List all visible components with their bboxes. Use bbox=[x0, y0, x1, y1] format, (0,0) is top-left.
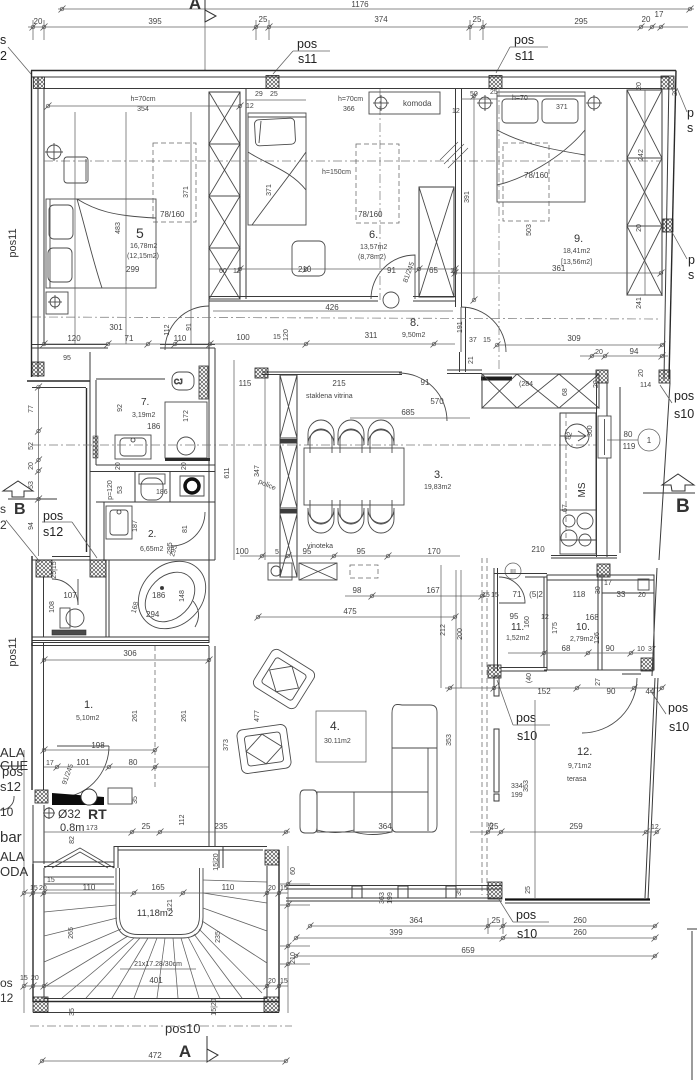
toilet bath lower bbox=[60, 608, 84, 628]
svg-text:78/160: 78/160 bbox=[358, 210, 383, 219]
svg-text:37: 37 bbox=[648, 646, 656, 653]
corridor jog wall x462 bbox=[460, 307, 466, 372]
svg-text:15: 15 bbox=[30, 885, 38, 892]
left wall lower run2 bbox=[32, 643, 215, 864]
svg-text:90: 90 bbox=[607, 687, 616, 696]
stairs labels bbox=[68, 899, 222, 969]
svg-text:12: 12 bbox=[452, 108, 460, 115]
bottom dim row 659 bbox=[293, 946, 659, 960]
sofa L bbox=[300, 705, 437, 835]
rooms 10/11 bottom wall + piers bbox=[488, 658, 654, 678]
svg-text:(284: (284 bbox=[519, 381, 533, 388]
svg-text:komoda: komoda bbox=[403, 99, 432, 108]
axis dashed room 9 bbox=[498, 88, 500, 372]
svg-text:10: 10 bbox=[0, 805, 14, 819]
dims rooms 10/11 bbox=[440, 545, 666, 696]
stairs canopy bbox=[44, 848, 114, 884]
svg-text:p: p bbox=[687, 106, 694, 120]
svg-text:371: 371 bbox=[556, 104, 568, 111]
svg-text:152: 152 bbox=[537, 687, 551, 696]
svg-text:35: 35 bbox=[132, 796, 139, 804]
svg-text:terasa: terasa bbox=[567, 776, 587, 783]
closet dashed room 6 bbox=[356, 144, 399, 223]
svg-text:3.: 3. bbox=[434, 469, 443, 481]
svg-text:15: 15 bbox=[491, 592, 499, 599]
svg-text:MS: MS bbox=[577, 482, 588, 497]
piers stairs bbox=[265, 850, 279, 865]
stair treads left fan bbox=[44, 890, 148, 998]
svg-text:15|20: 15|20 bbox=[213, 853, 220, 870]
room 12 terasa label bbox=[567, 746, 592, 783]
pier top-left corner bbox=[34, 77, 45, 89]
svg-text:1,52m2: 1,52m2 bbox=[506, 635, 529, 642]
room 9 labels bbox=[452, 171, 665, 277]
svg-text:475: 475 bbox=[343, 607, 357, 616]
svg-text:306: 306 bbox=[123, 649, 137, 658]
stove kitchen bbox=[560, 510, 596, 554]
svg-text:347: 347 bbox=[254, 465, 261, 477]
terrace left edge line bbox=[534, 700, 536, 898]
pos10 dash line bbox=[30, 1021, 292, 1036]
svg-text:25|15: 25|15 bbox=[51, 561, 58, 578]
svg-text:17: 17 bbox=[655, 10, 664, 19]
svg-text:126: 126 bbox=[594, 632, 601, 644]
svg-text:pos: pos bbox=[297, 37, 317, 51]
wall bath7 top (room5 bottom) bbox=[32, 345, 215, 349]
label pos s12 left bbox=[6, 509, 97, 562]
svg-text:399: 399 bbox=[389, 928, 403, 937]
RT labels bbox=[43, 806, 107, 834]
chairs top row bbox=[308, 420, 394, 453]
svg-text:160: 160 bbox=[524, 616, 531, 628]
svg-text:10.: 10. bbox=[576, 622, 590, 633]
svg-text:259: 259 bbox=[569, 822, 583, 831]
svg-text:503: 503 bbox=[526, 224, 533, 236]
wall above dining w. lintel bbox=[447, 370, 512, 381]
svg-text:RT: RT bbox=[88, 806, 107, 822]
entry band: pier bbox=[35, 790, 48, 803]
outer wall left bbox=[32, 71, 45, 378]
bed room 5 bbox=[46, 199, 156, 288]
svg-text:20: 20 bbox=[595, 349, 603, 356]
svg-text:s10: s10 bbox=[674, 407, 694, 421]
svg-text:(8,78m2): (8,78m2) bbox=[358, 254, 386, 261]
svg-text:198: 198 bbox=[91, 741, 105, 750]
dim row 1176 top bbox=[58, 0, 694, 13]
dim row 25 235 bbox=[44, 814, 290, 844]
vertical axis dashed x380 bbox=[379, 89, 381, 300]
dim 50 25 room 9 bbox=[461, 89, 498, 111]
svg-text:33: 33 bbox=[617, 590, 626, 599]
svg-text:19,83m2: 19,83m2 bbox=[424, 484, 451, 491]
dims vitrina row bbox=[239, 372, 569, 418]
svg-text:199: 199 bbox=[511, 792, 523, 799]
table room 4 label box bbox=[316, 711, 366, 762]
stair treads bottom bbox=[134, 938, 199, 998]
svg-text:pos: pos bbox=[43, 509, 63, 523]
svg-text:20: 20 bbox=[638, 369, 645, 377]
svg-text:294: 294 bbox=[146, 610, 160, 619]
svg-text:353: 353 bbox=[523, 780, 530, 792]
room 3 label bbox=[424, 469, 451, 491]
svg-text:110: 110 bbox=[83, 883, 96, 892]
svg-text:15: 15 bbox=[482, 592, 490, 599]
left outside stairs dim line bbox=[21, 750, 28, 1013]
pier kitchen wall top bbox=[596, 370, 608, 383]
svg-text:6.: 6. bbox=[369, 229, 378, 241]
svg-text:25: 25 bbox=[492, 916, 501, 925]
pier right outer at terrace top bbox=[659, 370, 670, 383]
radiator strip bath 7 bbox=[93, 436, 98, 458]
svg-text:361: 361 bbox=[552, 264, 566, 273]
terrace glass wall dashed bbox=[482, 558, 499, 895]
svg-text:25: 25 bbox=[259, 15, 268, 24]
svg-text:353: 353 bbox=[446, 734, 453, 746]
dims bottom of living bbox=[379, 886, 532, 904]
svg-text:94: 94 bbox=[630, 347, 639, 356]
svg-text:212: 212 bbox=[440, 624, 447, 636]
pier top wall s11 right bbox=[489, 76, 502, 89]
wall left jog at y381 bbox=[27, 381, 90, 552]
svg-text:187: 187 bbox=[132, 520, 139, 532]
svg-text:s11: s11 bbox=[515, 49, 534, 63]
svg-text:15: 15 bbox=[47, 877, 55, 884]
svg-text:2,79m2: 2,79m2 bbox=[570, 636, 593, 643]
svg-text:17: 17 bbox=[46, 760, 54, 767]
svg-text:pos: pos bbox=[516, 908, 536, 922]
dim 472 bbox=[39, 1051, 290, 1065]
stairs dims bottom bbox=[20, 975, 288, 1016]
svg-text:53: 53 bbox=[28, 481, 35, 489]
svg-text:483: 483 bbox=[115, 222, 122, 234]
svg-text:1.: 1. bbox=[84, 699, 93, 711]
svg-text:3,19m2: 3,19m2 bbox=[132, 412, 155, 419]
svg-text:10: 10 bbox=[637, 646, 645, 653]
svg-text:17: 17 bbox=[604, 580, 612, 587]
dims under wall 20 94 bbox=[580, 347, 668, 389]
svg-text:165: 165 bbox=[151, 883, 165, 892]
dims WC row bbox=[107, 462, 231, 500]
svg-text:29: 29 bbox=[255, 91, 263, 98]
svg-text:173: 173 bbox=[86, 825, 98, 832]
svg-text:90: 90 bbox=[606, 644, 615, 653]
svg-text:100: 100 bbox=[236, 333, 250, 342]
svg-text:95: 95 bbox=[303, 547, 312, 556]
dim extension lines dining left bbox=[233, 360, 235, 560]
door arc room1 bottom bbox=[57, 746, 109, 798]
radiator bath lower bbox=[52, 630, 86, 635]
wall lamp box room 5 bbox=[46, 292, 68, 314]
svg-text:260: 260 bbox=[573, 928, 587, 937]
door arc kitchen bbox=[171, 512, 205, 546]
kitchen right strip MS bbox=[560, 413, 596, 540]
dim row 17 101 80 bbox=[44, 758, 209, 786]
svg-text:A: A bbox=[179, 1042, 191, 1061]
stair treads right fan bbox=[188, 880, 267, 998]
dim 391 room 9 bbox=[452, 93, 478, 304]
shower bath 7 bbox=[165, 402, 210, 461]
armchair 2 bbox=[236, 724, 292, 775]
svg-text:364: 364 bbox=[409, 916, 423, 925]
bath 7 walls bbox=[90, 352, 215, 560]
svg-text:235: 235 bbox=[214, 822, 228, 831]
svg-text:1: 1 bbox=[647, 436, 652, 445]
svg-text:20: 20 bbox=[638, 592, 646, 599]
corridor axis dashed bbox=[32, 317, 660, 319]
chairs bottom row bbox=[308, 500, 394, 533]
wall under room 6 corridor top bbox=[209, 297, 455, 302]
balloon 1 glass door bbox=[607, 429, 660, 451]
washbasin bath 7 bbox=[115, 435, 151, 459]
svg-text:53: 53 bbox=[117, 486, 124, 494]
bottom dim row 399 260 bbox=[293, 928, 659, 942]
attic height dashed line h150 bbox=[44, 160, 662, 162]
svg-text:[13,56m2]: [13,56m2] bbox=[561, 259, 592, 266]
svg-text:300: 300 bbox=[587, 425, 594, 437]
left edge cut labels bbox=[0, 637, 29, 1005]
label pos s12 top-left corner leader bbox=[0, 33, 31, 74]
svg-text:78/160: 78/160 bbox=[524, 171, 549, 180]
door arc room 11 w. balloon III bbox=[499, 563, 525, 603]
svg-text:13,57m2: 13,57m2 bbox=[360, 244, 387, 251]
svg-text:186: 186 bbox=[147, 422, 161, 431]
svg-text:12: 12 bbox=[541, 614, 549, 621]
svg-text:685: 685 bbox=[401, 408, 415, 417]
svg-text:4.: 4. bbox=[330, 719, 340, 733]
svg-text:241: 241 bbox=[636, 297, 643, 309]
svg-text:staklena vitrina: staklena vitrina bbox=[306, 393, 353, 400]
kitchen right wall bbox=[597, 383, 621, 557]
svg-text:148: 148 bbox=[179, 590, 186, 602]
door arc room 6 bbox=[371, 255, 415, 299]
svg-text:9,50m2: 9,50m2 bbox=[402, 332, 425, 339]
svg-text:235: 235 bbox=[215, 931, 222, 943]
svg-text:20: 20 bbox=[593, 380, 600, 388]
svg-text:5,10m2: 5,10m2 bbox=[76, 715, 99, 722]
room 8 corridor label bbox=[402, 317, 425, 339]
svg-text:h=150cm: h=150cm bbox=[322, 169, 351, 176]
circle over wedge bbox=[81, 789, 97, 805]
svg-text:80: 80 bbox=[129, 758, 138, 767]
svg-text:115: 115 bbox=[239, 379, 252, 388]
svg-text:67: 67 bbox=[562, 504, 569, 512]
pier room10 top bbox=[597, 564, 610, 577]
svg-text:391: 391 bbox=[464, 191, 471, 203]
ceiling rose room 5 bbox=[45, 143, 63, 161]
svg-text:25: 25 bbox=[270, 91, 278, 98]
svg-text:12: 12 bbox=[246, 103, 254, 110]
svg-text:242: 242 bbox=[638, 149, 645, 161]
svg-text:25: 25 bbox=[525, 886, 532, 894]
dim 29 25 room 6 bbox=[246, 91, 306, 110]
svg-text:s12: s12 bbox=[43, 525, 63, 539]
right of stairs dims bbox=[280, 846, 310, 1013]
svg-text:472: 472 bbox=[148, 1051, 162, 1060]
svg-text:101: 101 bbox=[76, 758, 90, 767]
svg-text:395: 395 bbox=[148, 17, 162, 26]
svg-text:60: 60 bbox=[290, 867, 297, 875]
svg-text:20: 20 bbox=[34, 17, 43, 26]
black wedge RT bbox=[52, 793, 104, 805]
dining table bbox=[304, 448, 404, 505]
svg-text:191: 191 bbox=[457, 321, 464, 333]
desk room 5 bbox=[64, 157, 88, 183]
toilet bath 7 bbox=[172, 366, 208, 399]
room 1 top wall bbox=[32, 643, 213, 664]
svg-text:2: 2 bbox=[0, 49, 7, 63]
svg-text:261: 261 bbox=[181, 710, 188, 722]
svg-text:Ø32: Ø32 bbox=[58, 807, 81, 821]
svg-text:91: 91 bbox=[421, 378, 430, 387]
svg-text:52: 52 bbox=[28, 442, 35, 450]
label pos s10 bottom bbox=[498, 898, 549, 941]
wardrobe strip rooms 5/6 bbox=[209, 89, 246, 300]
room 10 box bbox=[547, 575, 654, 670]
svg-text:260: 260 bbox=[573, 916, 587, 925]
dim 475 bbox=[255, 607, 459, 621]
svg-text:172: 172 bbox=[183, 410, 190, 422]
svg-text:(40: (40 bbox=[526, 673, 533, 683]
section marker A bottom bbox=[179, 1036, 218, 1062]
dims room 6 bottom bbox=[209, 184, 459, 284]
boiler square room 10 bbox=[638, 579, 649, 590]
armchair 1 bbox=[251, 647, 317, 711]
svg-text:477: 477 bbox=[254, 710, 261, 722]
svg-text:25: 25 bbox=[490, 89, 498, 96]
door arc room 9 bbox=[461, 307, 506, 352]
svg-text:77: 77 bbox=[28, 405, 35, 413]
svg-text:37: 37 bbox=[469, 337, 477, 344]
svg-text:2.: 2. bbox=[148, 529, 156, 540]
bath 7 label bbox=[117, 397, 190, 431]
svg-text:98: 98 bbox=[353, 586, 362, 595]
svg-text:s: s bbox=[0, 502, 6, 516]
svg-text:pos: pos bbox=[668, 701, 688, 715]
pier police top bbox=[255, 368, 268, 378]
svg-text:25: 25 bbox=[488, 822, 495, 830]
svg-text:611: 611 bbox=[224, 467, 231, 478]
svg-text:30.11m2: 30.11m2 bbox=[324, 738, 351, 745]
svg-text:15|20: 15|20 bbox=[211, 998, 218, 1015]
svg-text:659: 659 bbox=[461, 946, 475, 955]
pier window wall right bbox=[488, 882, 502, 899]
svg-text:65: 65 bbox=[429, 266, 438, 275]
svg-text:44: 44 bbox=[646, 687, 655, 696]
svg-text:25: 25 bbox=[142, 822, 151, 831]
svg-text:8.: 8. bbox=[410, 317, 419, 329]
svg-text:354: 354 bbox=[137, 106, 149, 113]
room labels 10 11 bbox=[506, 622, 593, 643]
section marker B right bbox=[643, 474, 695, 517]
svg-text:CJ: CJ bbox=[174, 379, 183, 386]
dim h70 room 9 bbox=[512, 95, 568, 111]
svg-text:119: 119 bbox=[623, 442, 636, 451]
svg-text:570: 570 bbox=[430, 397, 444, 406]
svg-text:200: 200 bbox=[457, 628, 464, 640]
svg-text:ALA: ALA bbox=[0, 849, 25, 864]
svg-text:h=70: h=70 bbox=[512, 95, 528, 102]
table room 6 bbox=[292, 241, 325, 276]
svg-text:68: 68 bbox=[562, 644, 571, 653]
svg-text:(5|2: (5|2 bbox=[529, 590, 543, 599]
svg-text:95: 95 bbox=[63, 355, 71, 362]
svg-text:170: 170 bbox=[427, 547, 441, 556]
svg-text:7.: 7. bbox=[141, 397, 149, 408]
stairs dims top bbox=[26, 853, 288, 896]
svg-text:371: 371 bbox=[266, 184, 273, 196]
svg-text:III: III bbox=[510, 569, 516, 576]
svg-text:91: 91 bbox=[387, 266, 396, 275]
svg-text:364: 364 bbox=[378, 822, 392, 831]
dim row 98 167 bbox=[345, 586, 487, 600]
kitchen 2 sink bbox=[106, 506, 132, 539]
bottom dim row 364 25 260 bbox=[307, 916, 659, 934]
svg-text:92: 92 bbox=[117, 404, 124, 412]
svg-text:309: 309 bbox=[567, 334, 581, 343]
svg-text:12: 12 bbox=[651, 824, 659, 831]
svg-text:120: 120 bbox=[67, 334, 81, 343]
corridor dims row bbox=[41, 112, 666, 364]
svg-text:261: 261 bbox=[132, 710, 139, 722]
svg-text:p=120: p=120 bbox=[107, 480, 114, 500]
bed room 9 bbox=[440, 92, 585, 202]
svg-text:15: 15 bbox=[483, 337, 491, 344]
wardrobe room 6 right bbox=[419, 187, 454, 297]
svg-text:20: 20 bbox=[115, 462, 122, 470]
svg-text:s10: s10 bbox=[517, 927, 537, 941]
wall top of rooms 10/11 bbox=[551, 556, 617, 559]
svg-text:334: 334 bbox=[511, 783, 523, 790]
svg-text:199: 199 bbox=[387, 892, 394, 904]
dim 198 room1 bbox=[41, 741, 159, 754]
dims terrace bbox=[446, 570, 530, 885]
svg-text:5: 5 bbox=[275, 549, 279, 556]
svg-text:p: p bbox=[688, 253, 695, 267]
svg-text:h=70cm: h=70cm bbox=[338, 96, 363, 103]
kitchen 2 label bbox=[132, 520, 189, 557]
section marker B left bbox=[0, 481, 57, 532]
label pos s11 right bbox=[496, 33, 548, 73]
ceiling light room 6 door bbox=[383, 292, 399, 308]
svg-text:pos: pos bbox=[516, 711, 536, 725]
frame corner bottom right bbox=[687, 929, 697, 1080]
svg-text:15: 15 bbox=[273, 334, 281, 341]
room 6 label bbox=[358, 229, 387, 261]
svg-text:215: 215 bbox=[332, 379, 346, 388]
door sill rect bbox=[108, 788, 132, 804]
svg-text:186: 186 bbox=[156, 489, 168, 496]
svg-text:20: 20 bbox=[28, 462, 35, 470]
svg-text:s10: s10 bbox=[669, 720, 689, 734]
terrace door arc bbox=[582, 678, 637, 733]
toilet WC bbox=[139, 474, 165, 500]
svg-text:80: 80 bbox=[624, 430, 633, 439]
svg-text:175: 175 bbox=[552, 622, 559, 634]
svg-text:108: 108 bbox=[49, 601, 56, 613]
svg-text:5: 5 bbox=[136, 225, 144, 241]
svg-text:21x17.28/30cm: 21x17.28/30cm bbox=[134, 961, 182, 968]
svg-text:374: 374 bbox=[374, 15, 388, 24]
svg-text:373: 373 bbox=[223, 739, 230, 751]
svg-text:16,78m2: 16,78m2 bbox=[130, 243, 157, 250]
wardrobe room 9 right bbox=[627, 90, 662, 295]
room 1 label bbox=[76, 699, 188, 722]
section marker A top bbox=[189, 0, 216, 70]
svg-text:107: 107 bbox=[63, 591, 77, 600]
staklena vitrina X row bbox=[482, 374, 599, 408]
pier left wall at bath bbox=[32, 362, 44, 376]
svg-text:265: 265 bbox=[68, 927, 75, 939]
